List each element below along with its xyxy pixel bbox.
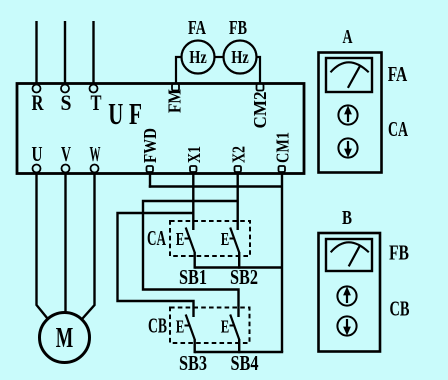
pushbutton SB4 link dash (230, 325, 235, 327)
panel A box (319, 53, 382, 173)
svg-text:B: B (342, 207, 352, 229)
terminal CM1 (279, 166, 286, 172)
panel B down arrow (346, 319, 348, 329)
svg-text:R: R (32, 90, 45, 115)
pushbutton SB3 blade (186, 315, 195, 340)
panel A meter needle (348, 66, 360, 88)
wire V to motor (64, 173, 66, 313)
terminal W (91, 165, 99, 173)
panel A up button (338, 105, 357, 124)
svg-text:E: E (176, 229, 185, 249)
svg-text:T: T (91, 90, 102, 115)
svg-text:E: E (221, 317, 230, 337)
panel B up button (337, 286, 356, 305)
pushbutton SB4 blade (230, 315, 239, 340)
wire SB3 SB4 bottom rail to CM1 (195, 351, 284, 353)
svg-text:E: E (176, 317, 185, 337)
pushbutton SB3 bottom lead (193, 339, 195, 353)
svg-text:SB2: SB2 (230, 265, 258, 289)
wire FB meter to CM2 (257, 57, 261, 84)
wire FWD to CM1 rail (149, 185, 282, 187)
pushbutton SB1 blade (186, 228, 195, 253)
wire W to motor (83, 173, 95, 319)
svg-text:A: A (343, 26, 353, 48)
wire T input (92, 21, 94, 84)
terminal X2 (235, 166, 242, 172)
svg-text:CM1: CM1 (273, 132, 293, 163)
svg-text:S: S (61, 90, 72, 115)
wire X2 down to SB2 (236, 172, 238, 230)
relay box CA dashed (170, 221, 250, 256)
terminal S (61, 85, 69, 93)
svg-text:X2: X2 (229, 146, 249, 163)
panel B meter arc (331, 242, 369, 252)
terminal R (33, 85, 41, 93)
wire S input (64, 21, 66, 84)
wire X1 bypass to SB3 (118, 213, 194, 317)
wire U to motor (37, 173, 48, 319)
svg-text:CB: CB (390, 297, 410, 321)
wire FWD down (149, 172, 151, 188)
wire CM1 vertical (281, 172, 283, 352)
svg-text:FA: FA (188, 17, 206, 39)
pushbutton SB2 blade (230, 228, 239, 253)
pushbutton SB4 bottom lead (238, 339, 240, 353)
svg-text:M: M (56, 322, 74, 354)
panel B box (319, 233, 381, 352)
svg-text:SB3: SB3 (179, 351, 207, 375)
wire X1 down to SB1 (192, 172, 194, 230)
svg-text:FWD: FWD (140, 128, 160, 163)
motor M circle (40, 313, 90, 363)
svg-text:SB4: SB4 (231, 351, 259, 375)
svg-text:Hz: Hz (189, 47, 207, 67)
svg-text:CA: CA (388, 117, 409, 141)
terminal T (90, 85, 98, 93)
svg-text:F: F (129, 96, 142, 131)
panel A down arrow (347, 141, 349, 151)
svg-text:FB: FB (229, 17, 247, 39)
terminal U (33, 165, 41, 173)
svg-text:FB: FB (389, 241, 409, 265)
panel A down button (338, 138, 357, 157)
pushbutton SB2 bottom lead (238, 252, 240, 269)
panel B meter needle (349, 246, 360, 266)
svg-text:CA: CA (147, 226, 167, 250)
svg-text:U: U (108, 96, 123, 131)
pushbutton SB2 link dash (230, 238, 235, 240)
terminal FWD (147, 166, 154, 172)
wire between Hz meters (215, 56, 224, 58)
panel A up arrow (347, 112, 349, 122)
pushbutton SB1 link dash (185, 238, 190, 240)
svg-text:X1: X1 (184, 146, 204, 163)
svg-text:FA: FA (388, 62, 408, 86)
frequency meter FA circle (182, 41, 215, 74)
svg-text:CM2: CM2 (250, 92, 270, 129)
svg-text:SB1: SB1 (179, 265, 207, 289)
frequency meter FB circle (224, 41, 257, 74)
svg-text:U: U (32, 142, 43, 166)
inverter UF box (17, 84, 304, 174)
terminal CM2 (257, 84, 264, 91)
terminal X1 (190, 166, 197, 172)
terminal FM (172, 84, 179, 91)
svg-text:FM: FM (165, 89, 185, 113)
wire R input (35, 21, 37, 84)
terminal V (62, 165, 70, 173)
wire FA meter to FM (176, 57, 182, 84)
panel A meter box (326, 58, 372, 92)
svg-text:E: E (221, 229, 230, 249)
wire X2 bypass to SB4 (143, 201, 239, 317)
svg-text:Hz: Hz (231, 47, 249, 67)
svg-text:CB: CB (148, 314, 167, 338)
wire SB1 SB2 bottom rail to CM1 (195, 266, 282, 268)
svg-text:V: V (61, 142, 71, 166)
panel B up arrow (346, 293, 348, 303)
svg-text:W: W (90, 142, 101, 166)
relay box CB dashed (170, 308, 250, 344)
panel A meter arc (331, 62, 369, 72)
pushbutton SB3 link dash (185, 325, 190, 327)
pushbutton SB1 bottom lead (193, 252, 195, 269)
panel B down button (337, 316, 356, 335)
panel B meter box (326, 239, 372, 271)
